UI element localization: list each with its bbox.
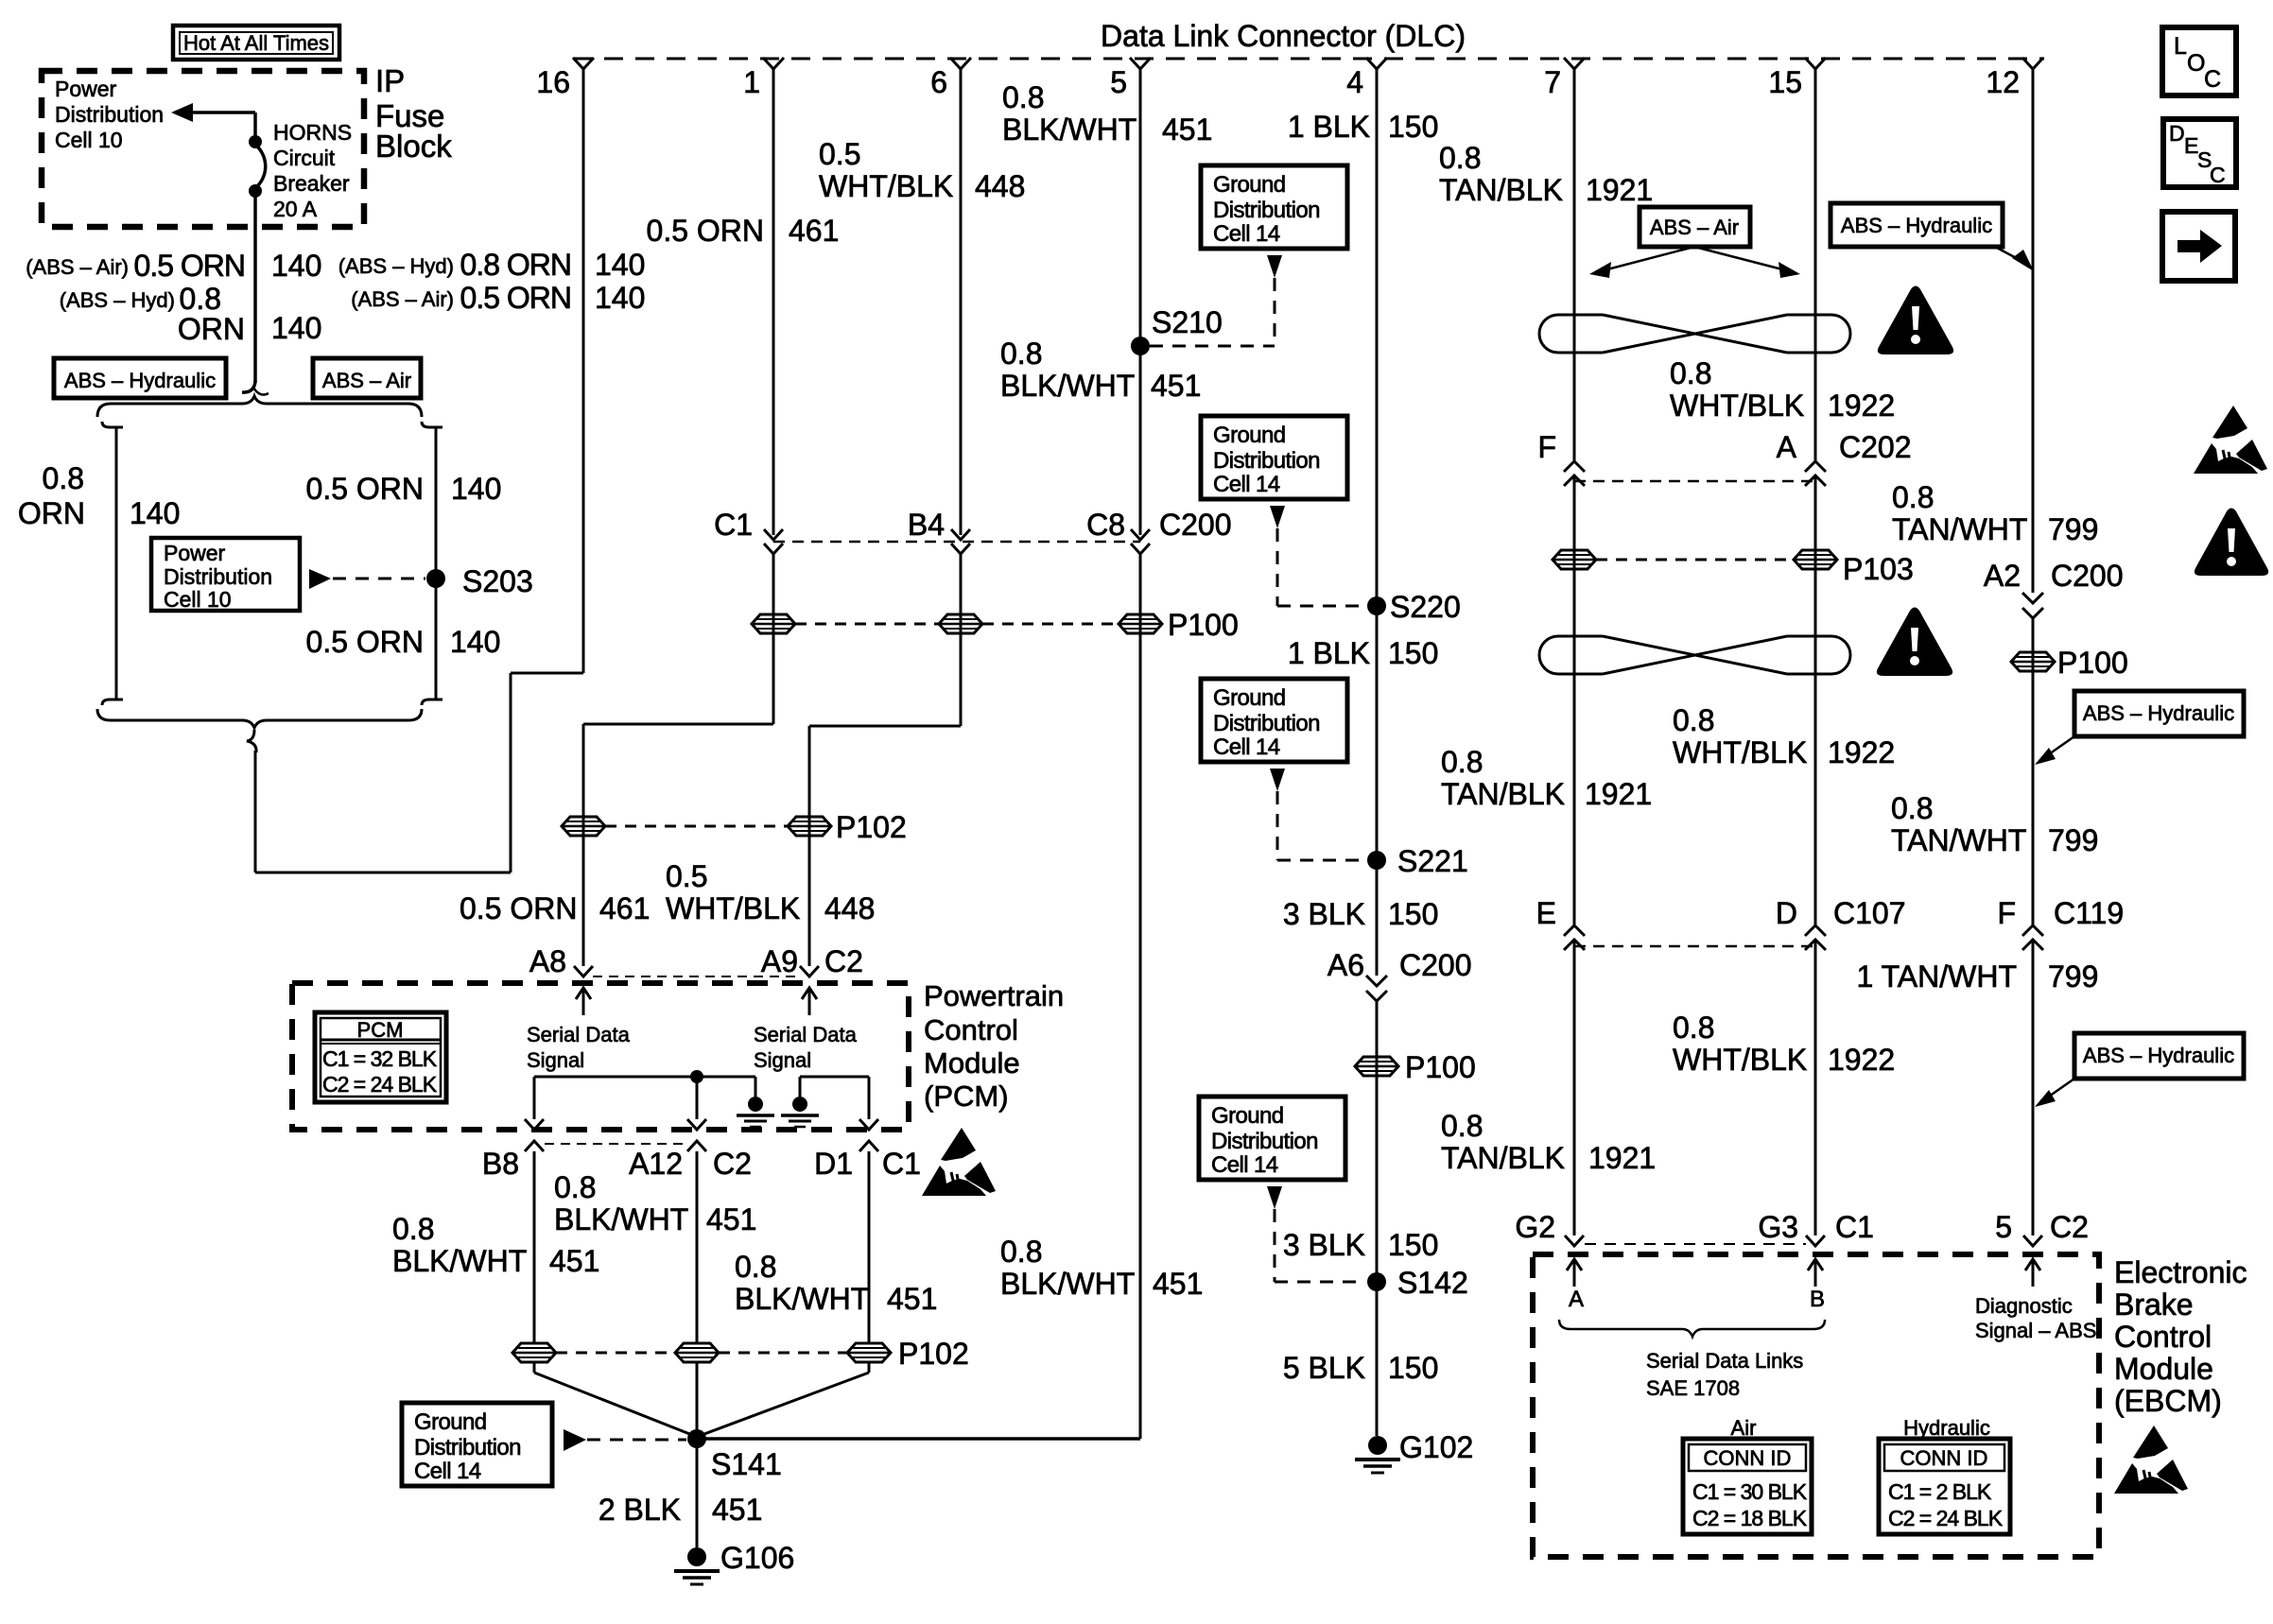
C200 label (row) <box>1159 508 1232 542</box>
connector C200 pin A2 (pin12) <box>2022 593 2043 618</box>
svg-text:150: 150 <box>1388 1228 1438 1262</box>
svg-text:0.8: 0.8 <box>1891 791 1933 825</box>
wire pin7 upper <box>1573 69 1576 460</box>
P100 lens (pin1) <box>752 614 795 633</box>
Ground Distribution Cell 14 box 5 <box>402 1403 552 1486</box>
svg-text:WHT/BLK: WHT/BLK <box>666 891 800 925</box>
underbrace joining ORN wires <box>97 709 422 728</box>
B label (EBCM) <box>1810 1287 1825 1312</box>
Ground Distribution Cell 14 box 1 <box>1201 165 1347 249</box>
svg-text:CONN ID: CONN ID <box>1704 1446 1792 1470</box>
wire B8 to S141 <box>534 1363 697 1437</box>
svg-text:448: 448 <box>975 169 1025 203</box>
svg-text:BLK/WHT: BLK/WHT <box>1000 369 1135 403</box>
svg-text:150: 150 <box>1388 110 1438 144</box>
arrow from Power Distribution box <box>309 569 331 589</box>
svg-text:WHT/BLK: WHT/BLK <box>819 169 953 203</box>
wire pin15 mid <box>1814 475 1817 924</box>
svg-text:Cell 14: Cell 14 <box>1213 734 1280 760</box>
svg-text:140: 140 <box>451 472 501 506</box>
svg-text:Powertrain: Powertrain <box>924 979 1064 1012</box>
G106 label <box>720 1541 794 1575</box>
C2 label (A12) <box>713 1147 752 1181</box>
overbrace splitting ABS feeds <box>97 396 422 417</box>
connector C202 pin A (pin15) <box>1805 461 1826 486</box>
wire S141 to G106 <box>696 1439 699 1547</box>
svg-text:4: 4 <box>1346 65 1363 99</box>
EBCM entry chevron G3 <box>1806 1235 1825 1246</box>
twisted pair 1 (1921/1922) <box>1539 315 1850 353</box>
D1 label <box>814 1147 853 1181</box>
svg-text:799: 799 <box>2048 959 2098 993</box>
svg-text:451: 451 <box>712 1493 762 1527</box>
P100 lens (pin12) <box>2011 652 2055 671</box>
S221 dashed link <box>1277 791 1365 860</box>
svg-text:(ABS – Air): (ABS – Air) <box>351 287 454 311</box>
svg-text:0.5: 0.5 <box>819 137 860 171</box>
svg-text:1921: 1921 <box>1586 173 1653 207</box>
A2 label <box>1984 559 2021 593</box>
splice S221 <box>1367 851 1386 870</box>
Serial Data Signal text (right) <box>754 1023 858 1072</box>
svg-text:Ground: Ground <box>414 1409 486 1435</box>
label 0.8 TAN/WHT 799 (upper) <box>1892 480 2098 546</box>
svg-text:ABS – Air: ABS – Air <box>322 369 411 392</box>
P100 label (pin12) <box>2057 646 2128 680</box>
wire pin15 lower <box>1814 940 1817 1235</box>
svg-text:0.8: 0.8 <box>1439 141 1481 175</box>
svg-text:F: F <box>1997 896 2016 930</box>
svg-text:C2 = 18 BLK: C2 = 18 BLK <box>1692 1506 1808 1530</box>
svg-text:A9: A9 <box>761 944 798 978</box>
P102 row dashed <box>605 825 788 828</box>
PCM entry dashed <box>593 976 800 977</box>
svg-text:BLK/WHT: BLK/WHT <box>1002 112 1136 147</box>
svg-text:799: 799 <box>2048 512 2098 546</box>
CONN ID box Air <box>1683 1439 1812 1534</box>
B8 label <box>482 1147 519 1181</box>
P100 label (pin4) <box>1405 1050 1476 1084</box>
svg-text:CONN ID: CONN ID <box>1900 1446 1988 1470</box>
svg-text:0.8 ORN: 0.8 ORN <box>460 248 571 282</box>
svg-text:P100: P100 <box>2057 646 2128 680</box>
svg-text:0.8: 0.8 <box>1892 480 1934 514</box>
label 1 BLK 150 (pin4 mid) <box>1288 636 1439 670</box>
svg-text:(ABS – Air): (ABS – Air) <box>26 255 129 279</box>
svg-text:S203: S203 <box>462 564 533 598</box>
label 3 BLK 150 (pin4) <box>1283 897 1439 931</box>
svg-text:Diagnostic: Diagnostic <box>1975 1294 2073 1318</box>
svg-text:Power: Power <box>55 77 117 101</box>
svg-text:3 BLK: 3 BLK <box>1283 1228 1365 1262</box>
C2 label (A9) <box>824 944 863 978</box>
svg-text:P102: P102 <box>898 1337 969 1371</box>
svg-text:A6: A6 <box>1327 948 1364 982</box>
label 0.5 ORN 461 (pin1 lower) <box>460 891 650 925</box>
arrow right of box 5 <box>564 1429 586 1451</box>
svg-text:140: 140 <box>595 248 645 282</box>
EBCM arrow B <box>1808 1259 1823 1287</box>
svg-text:451: 451 <box>887 1282 937 1316</box>
Powertrain Control Module (PCM) label <box>924 979 1064 1113</box>
svg-text:C107: C107 <box>1833 896 1906 930</box>
CONN ID box Hydraulic <box>1879 1439 2010 1534</box>
P100 row dashed <box>795 623 1119 626</box>
label 1 TAN/WHT 799 (pin12) <box>1857 959 2099 993</box>
warning symbol 2 <box>1877 608 1952 677</box>
label 0.8 WHT/BLK 1922 (lower) <box>1673 1011 1895 1077</box>
svg-text:P103: P103 <box>1843 552 1914 586</box>
svg-text:C: C <box>2204 66 2221 93</box>
Diagnostic Signal - ABS text <box>1975 1294 2096 1342</box>
arrow below box 3 <box>1270 769 1285 791</box>
svg-text:Cell 14: Cell 14 <box>1213 221 1280 247</box>
right bracket wire S203 feed <box>422 422 442 705</box>
svg-text:S141: S141 <box>711 1447 782 1481</box>
svg-text:P102: P102 <box>836 810 907 844</box>
connector C200 pin A6 (pin4) <box>1366 976 1387 1001</box>
svg-text:G3: G3 <box>1758 1210 1798 1244</box>
svg-text:BLK/WHT: BLK/WHT <box>1000 1267 1135 1301</box>
PCM internal bus <box>534 1070 755 1083</box>
svg-text:C1 = 30 BLK: C1 = 30 BLK <box>1692 1479 1808 1504</box>
PCM internal ground 1 <box>737 1077 774 1127</box>
PCM internal drop D1 <box>859 1077 878 1130</box>
label 2 BLK 451 (G106) <box>599 1493 763 1527</box>
ABS-Air arrows <box>1589 247 1800 278</box>
svg-text:(ABS – Hyd): (ABS – Hyd) <box>60 288 175 312</box>
wire pin1 upper <box>772 69 775 535</box>
svg-text:L: L <box>2174 33 2187 60</box>
label 0.8 ORN 140 (left bracket) <box>18 461 181 530</box>
label 0.8 WHT/BLK 1922 (upper) <box>1670 356 1895 423</box>
svg-text:0.5 ORN: 0.5 ORN <box>134 249 245 283</box>
svg-text:1922: 1922 <box>1828 389 1895 423</box>
C202 label <box>1839 430 1912 464</box>
S220 label <box>1390 590 1461 624</box>
svg-text:5: 5 <box>1995 1210 2012 1244</box>
label 1 BLK 150 (pin4 top) <box>1288 110 1439 144</box>
svg-text:0.8: 0.8 <box>43 461 84 495</box>
S210 label <box>1152 305 1223 339</box>
svg-text:C1 = 2 BLK: C1 = 2 BLK <box>1888 1479 1992 1504</box>
svg-text:Signal – ABS: Signal – ABS <box>1975 1319 2096 1342</box>
pin label 6 <box>930 65 947 99</box>
wire A12 to S141 <box>696 1363 699 1439</box>
S142 label <box>1397 1266 1468 1300</box>
S210 dashed link <box>1150 278 1275 346</box>
DLC pin 1 connector Y <box>763 58 784 69</box>
pin label 1 <box>743 65 760 99</box>
connector C200 pin B4 (pin6) <box>951 529 970 554</box>
EBCM entry chevron 5/C2 <box>2023 1235 2042 1246</box>
ESD symbol (right margin) <box>2194 406 2267 474</box>
svg-text:C1: C1 <box>1835 1210 1874 1244</box>
connector row C200 dashed <box>773 541 1140 544</box>
wire breaker feed <box>253 112 257 140</box>
label 0.5 ORN 461 (pin1) <box>647 214 840 248</box>
arrow below box 2 <box>1270 506 1285 528</box>
svg-text:0.5 ORN: 0.5 ORN <box>306 472 424 506</box>
wire across to pin16 jog <box>255 872 511 874</box>
svg-text:451: 451 <box>1162 112 1212 147</box>
P102 lens (pin1) <box>562 817 605 836</box>
svg-text:Cell 10: Cell 10 <box>55 128 123 152</box>
svg-text:140: 140 <box>595 281 645 315</box>
twisted pair 2 (1921/1922) <box>1539 636 1850 674</box>
wire underbrace tail <box>247 730 256 872</box>
svg-text:ABS – Hydraulic: ABS – Hydraulic <box>1841 214 1992 237</box>
svg-text:Hot At All Times: Hot At All Times <box>183 31 329 55</box>
svg-text:Ground: Ground <box>1211 1103 1283 1129</box>
svg-text:S221: S221 <box>1397 844 1468 878</box>
svg-text:Serial Data: Serial Data <box>754 1023 858 1046</box>
ABS-Hydraulic arrow (lower) <box>2035 1079 2074 1107</box>
svg-text:0.8: 0.8 <box>1441 1109 1483 1143</box>
F label (C119) <box>1997 896 2016 930</box>
C107 label <box>1833 896 1906 930</box>
svg-text:1 BLK: 1 BLK <box>1288 636 1370 670</box>
wire pin5 <box>1139 69 1142 1439</box>
svg-text:0.5 ORN: 0.5 ORN <box>460 281 571 315</box>
svg-text:448: 448 <box>824 891 875 925</box>
svg-text:140: 140 <box>130 496 180 530</box>
svg-text:Ground: Ground <box>1213 423 1285 448</box>
P102 lens row 2 (B8) <box>512 1343 556 1362</box>
A label (C202) <box>1777 430 1797 464</box>
svg-text:0.5 ORN: 0.5 ORN <box>306 625 424 659</box>
svg-text:TAN/WHT: TAN/WHT <box>1891 823 2026 857</box>
PCM connector ID box <box>315 1012 446 1102</box>
svg-text:0.8: 0.8 <box>1000 337 1042 371</box>
label (ABS-Hyd) 0.8 left <box>60 282 221 316</box>
pin label 7 <box>1544 65 1561 99</box>
C200 label (A6) <box>1399 948 1472 982</box>
svg-text:451: 451 <box>706 1202 756 1236</box>
svg-text:BLK/WHT: BLK/WHT <box>392 1244 527 1278</box>
G3 label <box>1758 1210 1798 1244</box>
C1 label <box>714 508 753 542</box>
svg-text:Distribution: Distribution <box>55 102 164 127</box>
svg-text:6: 6 <box>930 65 947 99</box>
wire S141 to pin5 column <box>697 1437 1140 1441</box>
P102 row 2 dashed <box>556 1352 847 1355</box>
svg-text:Serial Data Links: Serial Data Links <box>1646 1349 1803 1373</box>
svg-text:0.8: 0.8 <box>1441 745 1483 779</box>
S141 dashed link <box>587 1439 686 1442</box>
svg-text:(EBCM): (EBCM) <box>2114 1384 2222 1418</box>
P102 lens row 2 (A12) <box>675 1343 719 1362</box>
ground G102 <box>1355 1436 1400 1473</box>
svg-text:C2: C2 <box>713 1147 752 1181</box>
svg-text:B: B <box>1810 1287 1825 1312</box>
P102 label (row 2) <box>898 1337 969 1371</box>
Hydraulic text <box>1903 1416 1990 1440</box>
svg-text:Distribution: Distribution <box>1211 1129 1318 1154</box>
connector C2-A9 entry chevron <box>800 966 819 976</box>
DLC pin 15 connector Y <box>1805 58 1826 69</box>
svg-text:A12: A12 <box>629 1147 683 1181</box>
svg-text:Module: Module <box>924 1046 1020 1080</box>
DLC pin 12 connector Y <box>2022 58 2043 69</box>
wire from breaker down <box>242 193 269 395</box>
label (ABS-Air) 0.5 ORN 140 right <box>351 281 645 315</box>
connector C200 pin C8 (pin5) <box>1131 529 1150 554</box>
PCM exit chevron B8 <box>525 1141 544 1343</box>
svg-text:461: 461 <box>789 214 839 248</box>
Hot At All Times text <box>183 31 329 55</box>
C200 label (A2) <box>2051 559 2124 593</box>
svg-text:Air: Air <box>1731 1416 1757 1440</box>
DLC pin 4 connector Y <box>1366 58 1387 69</box>
G102 label <box>1399 1430 1473 1464</box>
svg-text:3 BLK: 3 BLK <box>1283 897 1365 931</box>
Ground Distribution Cell 14 box 2 <box>1201 416 1347 499</box>
label 5 BLK 150 (pin4 bottom) <box>1283 1351 1439 1385</box>
svg-text:B4: B4 <box>908 508 945 542</box>
svg-text:C2 = 24 BLK: C2 = 24 BLK <box>322 1072 438 1097</box>
ABS-Hydraulic arrow (top) <box>1995 247 2034 271</box>
dashed link to S203 <box>333 578 425 580</box>
splice S203 <box>426 569 445 588</box>
wire pin16 jog horizontal <box>511 672 583 675</box>
Hot At All Times tag box <box>173 26 339 60</box>
connector C200 pin C1 (pin1) <box>764 529 783 554</box>
splice S141 <box>687 1429 706 1448</box>
svg-text:Signal: Signal <box>754 1048 811 1072</box>
svg-text:1921: 1921 <box>1585 777 1652 811</box>
PCM exit dashed <box>545 1143 687 1145</box>
svg-text:150: 150 <box>1388 1351 1438 1385</box>
G2 label <box>1515 1210 1555 1244</box>
svg-text:C2: C2 <box>824 944 863 978</box>
svg-text:Distribution: Distribution <box>1213 198 1320 223</box>
ground G106 <box>674 1547 720 1584</box>
svg-text:0.8: 0.8 <box>1673 703 1714 737</box>
svg-text:1 TAN/WHT: 1 TAN/WHT <box>1857 959 2017 993</box>
C8 label <box>1086 508 1125 542</box>
svg-text:2 BLK: 2 BLK <box>599 1493 681 1527</box>
svg-text:A: A <box>1777 430 1797 464</box>
svg-text:Brake: Brake <box>2114 1287 2194 1322</box>
svg-text:TAN/WHT: TAN/WHT <box>1892 512 2027 546</box>
label (ABS-Air) 0.5 ORN 140 left <box>26 249 321 283</box>
ABS-Hydraulic tag (top) <box>1831 203 2003 247</box>
svg-text:1: 1 <box>743 65 760 99</box>
Ground Distribution Cell 14 box 3 <box>1201 679 1347 762</box>
pin label 15 <box>1768 65 1802 99</box>
HORNS Circuit Breaker 20 A text <box>273 120 352 221</box>
svg-text:Serial Data: Serial Data <box>527 1023 631 1046</box>
label 0.5 WHT/BLK 448 (pin6 lower) <box>666 859 875 925</box>
svg-text:ORN: ORN <box>18 496 85 530</box>
svg-text:C200: C200 <box>1399 948 1472 982</box>
IP Fuse Block label <box>375 63 452 164</box>
LOC icon <box>2162 27 2236 95</box>
Serial Data Signal arrow (A8) <box>576 988 591 1015</box>
DLC connector dashed bus line <box>573 58 2044 60</box>
svg-text:Cell 14: Cell 14 <box>1211 1152 1278 1178</box>
svg-text:TAN/BLK: TAN/BLK <box>1439 173 1563 207</box>
svg-text:ABS – Hydraulic: ABS – Hydraulic <box>2083 701 2234 725</box>
svg-text:BLK/WHT: BLK/WHT <box>735 1282 869 1316</box>
S142 dashed link <box>1275 1209 1365 1282</box>
svg-text:Electronic: Electronic <box>2114 1255 2247 1289</box>
A9 label <box>761 944 798 978</box>
wire pin6 mid <box>960 554 963 726</box>
svg-text:Circuit: Circuit <box>273 146 336 170</box>
svg-text:Module: Module <box>2114 1352 2213 1386</box>
svg-text:Control: Control <box>924 1013 1018 1046</box>
forward arrow icon <box>2162 212 2235 281</box>
splice S220 <box>1367 596 1386 615</box>
svg-text:G102: G102 <box>1399 1430 1473 1464</box>
label 3 BLK 150 (pin4 lower) <box>1283 1228 1439 1262</box>
svg-text:A2: A2 <box>1984 559 2021 593</box>
label 0.8 TAN/BLK 1921 (pin7 lower) <box>1441 1109 1656 1175</box>
label 0.8 TAN/WHT 799 (mid) <box>1891 791 2098 857</box>
svg-text:Hydraulic: Hydraulic <box>1903 1416 1990 1440</box>
EBCM entry dashed <box>1585 1243 1806 1245</box>
svg-text:A8: A8 <box>529 944 566 978</box>
EBCM entry chevron G2 <box>1565 1235 1584 1246</box>
PCM exit chevron D1 <box>859 1141 878 1343</box>
svg-text:Distribution: Distribution <box>1213 711 1320 736</box>
PCM exit chevron A12 <box>687 1141 706 1343</box>
wire pin4 upper <box>1376 69 1379 976</box>
wire pin7 lower <box>1573 940 1576 1235</box>
connector C119 pin F (pin12) <box>2022 925 2043 950</box>
PCM dashed box <box>292 983 909 1130</box>
svg-text:WHT/BLK: WHT/BLK <box>1673 735 1807 769</box>
S203 label <box>462 564 533 598</box>
wire pin7 mid <box>1573 475 1576 924</box>
label 0.5 WHT/BLK 448 (pin6) <box>819 137 1025 203</box>
svg-text:0.8: 0.8 <box>1673 1011 1714 1045</box>
connector C107 pin D (pin15) <box>1805 925 1826 950</box>
svg-text:C2 = 24 BLK: C2 = 24 BLK <box>1888 1506 2004 1530</box>
C202 dashed row <box>1574 480 1815 483</box>
svg-text:ABS – Hydraulic: ABS – Hydraulic <box>2083 1044 2234 1067</box>
wire pin1 jog <box>583 724 773 966</box>
label 0.8 BLK/WHT 451 (pin5 lower) <box>1000 1235 1203 1301</box>
svg-text:0.8: 0.8 <box>1002 80 1044 114</box>
A label (EBCM) <box>1569 1287 1584 1312</box>
svg-text:1921: 1921 <box>1588 1141 1656 1175</box>
P100 lens (pin6) <box>939 614 982 633</box>
B4 label <box>908 508 945 542</box>
Air text <box>1731 1416 1757 1440</box>
P102 lens (pin6) <box>788 817 831 836</box>
svg-text:ABS – Air: ABS – Air <box>1650 216 1739 239</box>
svg-text:(PCM): (PCM) <box>924 1080 1009 1113</box>
svg-text:Distribution: Distribution <box>414 1435 521 1460</box>
label 0.8 TAN/BLK 1921 (pin7 top) <box>1439 141 1653 207</box>
svg-text:A: A <box>1569 1287 1584 1312</box>
svg-text:140: 140 <box>450 625 500 659</box>
svg-text:ABS – Hydraulic: ABS – Hydraulic <box>64 369 216 392</box>
wire D1 to S141 <box>697 1363 869 1437</box>
ABS-Air tag (pins 7/15) <box>1640 207 1750 247</box>
DLC pin 7 connector Y <box>1564 58 1585 69</box>
svg-text:Cell 10: Cell 10 <box>164 587 232 612</box>
C119 label <box>2054 896 2124 930</box>
C1 label (D1) <box>882 1147 921 1181</box>
wire pin12 mid <box>2032 618 2035 924</box>
svg-text:S220: S220 <box>1390 590 1461 624</box>
circuit breaker CB (HORNS 20A) <box>249 135 266 198</box>
wire pin16 jog vertical <box>510 673 512 872</box>
